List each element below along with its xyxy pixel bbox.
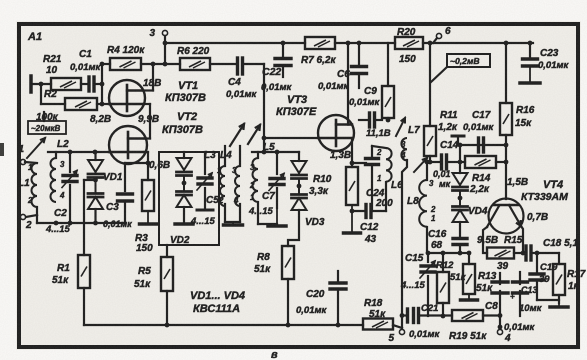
- resistor R7: [301, 37, 336, 66]
- bar near C17: [452, 136, 464, 145]
- resistor R18: [363, 298, 393, 330]
- wire VT3 gate: [262, 136, 318, 141]
- varicap VD4: [453, 173, 488, 222]
- resistor R5: [134, 257, 173, 291]
- junction node3 rail: [163, 41, 168, 46]
- resistor R2: [36, 89, 97, 123]
- resistor R3: [135, 180, 154, 254]
- transistor VT3: [318, 115, 354, 151]
- wire C2 stems: [69, 152, 71, 223]
- wire R1 bottom: [83, 288, 85, 325]
- wire C14 row: [430, 161, 460, 163]
- junction bus R5: [165, 323, 170, 328]
- wire R2 row: [41, 84, 65, 104]
- node 6: [433, 26, 451, 43]
- inductor L3: [217, 166, 225, 206]
- resistor R8: [254, 246, 294, 279]
- voltage 0,6V: [149, 160, 170, 171]
- wire C22 stems: [282, 43, 284, 77]
- inductor L5: [249, 142, 275, 202]
- wire VD1 bottom: [93, 209, 98, 225]
- node 4: [497, 329, 511, 344]
- wire L1 bottom riser: [36, 215, 38, 223]
- voltage 1,5V: [507, 177, 528, 188]
- wire C13 stems: [519, 272, 521, 316]
- junction tank bottom C2: [68, 221, 73, 226]
- resistor R19: [449, 310, 487, 342]
- label VD1-VD4: [190, 290, 245, 315]
- wire R19 right: [483, 313, 502, 318]
- ground L5 block: [268, 208, 286, 226]
- junction gate col C1: [100, 82, 105, 87]
- label VT4: [521, 179, 568, 203]
- wire VD1 top: [94, 152, 96, 160]
- wire R11 bottom: [429, 156, 431, 162]
- capacitor C8: [485, 282, 508, 312]
- scan mark left margin: [0, 143, 4, 156]
- wire VT4 right leg: [521, 226, 523, 253]
- ground R13: [461, 294, 478, 300]
- label A1: [27, 31, 42, 43]
- resistor R6: [177, 46, 210, 70]
- junction bus R8: [286, 323, 291, 328]
- resistor R10: [309, 167, 358, 205]
- junction top rail C22: [281, 41, 286, 46]
- wire VT3 source: [351, 138, 353, 167]
- label 0,01mk node5: [409, 329, 441, 340]
- ground R3: [140, 212, 157, 224]
- wire VT2 source to C3: [125, 163, 148, 191]
- wire mid row 253: [426, 251, 463, 256]
- bar C5 bottom: [197, 209, 213, 212]
- callout 0,2mV box: [431, 54, 490, 82]
- inductor L7: [400, 125, 420, 160]
- resistor R1: [52, 255, 90, 288]
- wire row253 ext: [460, 252, 469, 254]
- wire VT1 source to VT2 drain: [143, 104, 150, 139]
- junction gate col top: [100, 62, 105, 67]
- wire L2 top: [55, 152, 57, 158]
- inductor L2: [51, 139, 70, 202]
- trimmer C5: [190, 173, 219, 227]
- varicap VD2: [170, 158, 192, 246]
- wire VD3 top: [298, 152, 300, 161]
- wire L6 top: [372, 146, 386, 148]
- label VT2: [162, 111, 203, 136]
- capacitor C13 electrolytic: [510, 282, 543, 314]
- wire R8 bottom: [287, 279, 289, 325]
- wire VD2 top: [183, 152, 185, 158]
- junction tank bottom L2: [54, 221, 59, 226]
- trimmer C2: [45, 171, 77, 236]
- node 3: [149, 28, 167, 64]
- bar C21 left: [400, 309, 408, 322]
- wire top rail: [165, 42, 533, 44]
- wire VD2 bottom bar: [175, 207, 193, 224]
- wire VT1 drain up: [143, 62, 155, 91]
- wire C18 right: [531, 251, 559, 256]
- resistor R20: [395, 27, 423, 65]
- capacitor C1: [70, 49, 102, 91]
- wire VD3 bottom to R8: [288, 210, 299, 246]
- wire L3L4 bottom: [225, 204, 240, 222]
- wire C23 stems: [528, 41, 533, 59]
- wire C4 to VT3 gate column: [243, 64, 264, 138]
- capacitor C22: [261, 59, 293, 94]
- wire L8 top stem: [425, 160, 430, 180]
- wire R5 top: [166, 245, 168, 257]
- wire tank bottom: [37, 222, 125, 224]
- wire gate column: [101, 64, 103, 104]
- label VT3: [276, 94, 317, 118]
- junction tank C2: [68, 150, 73, 155]
- resistor R14: [465, 156, 496, 195]
- wire gate to L5 top: [263, 138, 265, 152]
- voltage 11,1V: [366, 128, 391, 139]
- wire C20 stems: [337, 271, 339, 325]
- wire C3 bottom: [124, 201, 126, 223]
- label L3 L4: [204, 150, 232, 161]
- wire C24 stems: [371, 146, 373, 211]
- inductor L1: [18, 163, 37, 207]
- junction bus C20: [336, 323, 341, 328]
- wire C15 stems: [427, 253, 429, 316]
- voltage 0,7V: [527, 212, 548, 223]
- wire C12 row: [350, 209, 386, 214]
- junction R14 right: [504, 160, 509, 165]
- wire C19 stems: [536, 253, 538, 300]
- wire R5 bottom: [166, 291, 168, 325]
- varicap VD3: [292, 161, 325, 228]
- voltage 18V: [143, 78, 161, 89]
- ground C23: [520, 67, 540, 83]
- wire L6 bottom: [385, 182, 387, 211]
- junction R11 bottom: [428, 160, 433, 165]
- varicap VD1: [88, 160, 123, 209]
- junction C14 R14: [458, 160, 463, 165]
- wire VT3 drain: [348, 43, 352, 125]
- voltage 8,2V: [90, 114, 111, 125]
- resistor R13: [463, 264, 497, 294]
- ground R10: [344, 205, 361, 233]
- capacitor C21: [414, 303, 439, 323]
- junction tank VD1: [93, 150, 98, 155]
- node 5: [388, 329, 404, 344]
- resistor R21: [43, 54, 81, 90]
- shield box VD2: [159, 152, 219, 245]
- label 0,01mk node4: [504, 322, 536, 333]
- wire VT2 source: [144, 152, 150, 180]
- capacitor C24: [366, 159, 394, 210]
- wire R16 stems: [505, 43, 507, 199]
- junction gate col R2: [100, 102, 105, 107]
- wire node6 down: [428, 41, 433, 126]
- wire tank top: [48, 151, 109, 153]
- wire R6 to C4: [210, 63, 236, 65]
- junction top rail VT3 drain: [346, 41, 351, 46]
- wire source to C24: [352, 162, 366, 164]
- label VT1: [165, 80, 206, 104]
- wire L5 bottom: [258, 202, 277, 224]
- junction top rail R16: [504, 41, 509, 46]
- wire L5 stem: [257, 152, 259, 158]
- wire C8 stems: [499, 273, 501, 316]
- input terminal bar: [29, 76, 33, 92]
- wire L5 top rail: [252, 151, 299, 153]
- wire R15 right: [514, 251, 525, 256]
- ground L3L4: [224, 222, 243, 225]
- wire VD4 top: [459, 162, 461, 173]
- wire L8 bottom: [426, 227, 428, 253]
- resistor R17: [553, 264, 586, 295]
- trimmer C7: [248, 174, 284, 218]
- wire C6 stems: [358, 43, 360, 88]
- capacitor C20: [296, 283, 346, 316]
- wire L3 top: [224, 146, 226, 166]
- terminal 1: [18, 144, 25, 165]
- wire R9 stems: [386, 43, 391, 122]
- resistor R11: [424, 110, 458, 156]
- caption lower: [271, 349, 278, 360]
- wire R12 stems: [441, 253, 446, 318]
- resistor R12: [436, 260, 467, 303]
- wire node4 riser: [498, 316, 503, 330]
- capacitor C6: [318, 67, 367, 93]
- junction VT3 source: [350, 161, 355, 166]
- junction node3 R4: [163, 62, 168, 67]
- resistor R15: [487, 235, 523, 272]
- trimmer C15: [400, 253, 435, 291]
- wire C17 row: [458, 143, 509, 162]
- voltage 1,3V: [330, 150, 351, 161]
- terminal 2: [20, 214, 32, 231]
- capacitor C3: [103, 194, 133, 229]
- wire VT4 left leg: [483, 227, 487, 253]
- capacitor C9: [349, 86, 381, 127]
- wire R2 to VT1 gate: [97, 103, 109, 105]
- inductor L6: [376, 148, 403, 191]
- inductor L8: [407, 179, 436, 227]
- wire R13 top: [467, 251, 472, 264]
- wire C21 right: [402, 314, 452, 316]
- wire C16 stems: [459, 222, 461, 253]
- capacitor C23: [523, 48, 570, 71]
- transistor VT2: [109, 126, 147, 164]
- capacitor C4: [226, 58, 258, 100]
- capacitor C19: [530, 262, 558, 285]
- wire bottom bus: [84, 324, 363, 326]
- wire C1 to gate column: [94, 83, 102, 85]
- resistor R9 box: [382, 86, 394, 118]
- junction top rail C6: [357, 41, 362, 46]
- capacitor C12: [360, 205, 379, 246]
- wire C9 row: [359, 119, 382, 121]
- wire R18 right: [393, 325, 402, 328]
- capacitor C16: [428, 229, 467, 251]
- inductor L4: [232, 166, 240, 206]
- capacitor C17: [463, 110, 495, 152]
- wire input to R21: [33, 83, 51, 85]
- junction C7 top: [275, 150, 280, 155]
- wire R4 leads: [102, 63, 180, 65]
- junction input: [39, 82, 44, 87]
- transistor VT4: [487, 199, 524, 234]
- wire L4 top: [239, 146, 241, 166]
- voltage 9,9V: [138, 114, 159, 125]
- switch arrow S1 input: [27, 138, 45, 158]
- resistor R16: [500, 103, 535, 135]
- ground R17: [550, 303, 568, 307]
- wire C5 stems: [204, 152, 206, 208]
- switch arrows band: [230, 124, 260, 146]
- capacitor C18: [526, 238, 578, 260]
- wire R21 to C1: [81, 83, 87, 85]
- switch arrow L7: [396, 118, 405, 136]
- wire C7 stems: [276, 152, 278, 208]
- wire term1 to L1: [25, 162, 37, 163]
- wire R14 leads: [460, 161, 506, 163]
- resistor R4: [107, 45, 145, 70]
- capacitor C14: [433, 140, 459, 189]
- wire R17 stems: [537, 253, 559, 303]
- callout 20uV box: [28, 112, 66, 134]
- wire L7 bottom down to node5: [402, 160, 407, 329]
- wire L1 bottom to term2: [26, 207, 37, 217]
- transistor VT1: [109, 80, 145, 116]
- junction L5 top: [262, 150, 267, 155]
- voltage 9,5V: [477, 235, 498, 246]
- switch arrow C14: [414, 158, 427, 172]
- wire VD1 mid tap: [84, 178, 98, 255]
